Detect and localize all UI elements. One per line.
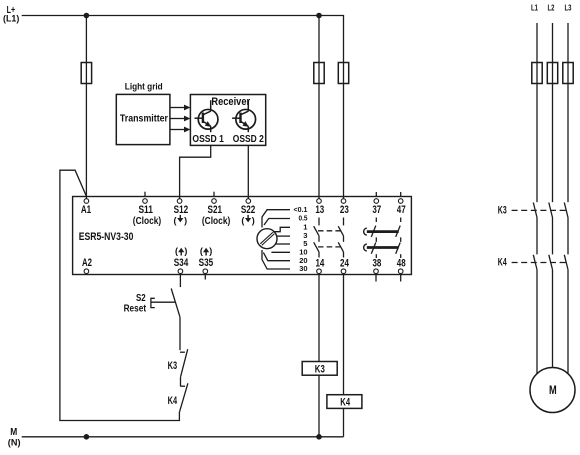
svg-text:M: M — [10, 427, 17, 438]
svg-text:(: ( — [175, 246, 178, 256]
svg-text:13: 13 — [315, 204, 324, 216]
svg-text:Reset: Reset — [124, 303, 147, 314]
svg-text:S11: S11 — [138, 204, 153, 216]
svg-text:Light grid: Light grid — [125, 81, 163, 92]
svg-text:(Clock): (Clock) — [133, 216, 161, 227]
svg-text:K4: K4 — [168, 395, 178, 407]
svg-text:(N): (N) — [8, 438, 21, 449]
svg-text:S21: S21 — [208, 204, 223, 216]
svg-text:S35: S35 — [199, 257, 214, 269]
svg-text:38: 38 — [372, 257, 381, 269]
svg-text:L2: L2 — [548, 2, 555, 12]
svg-text:K4: K4 — [498, 257, 507, 269]
svg-text:0.5: 0.5 — [299, 214, 309, 223]
svg-text:(L1): (L1) — [3, 14, 19, 25]
svg-text:K3: K3 — [315, 363, 325, 375]
svg-text:S22: S22 — [241, 204, 256, 216]
svg-text:OSSD 2: OSSD 2 — [233, 133, 264, 145]
svg-text:23: 23 — [340, 204, 349, 216]
svg-text:48: 48 — [397, 257, 406, 269]
svg-text:(: ( — [174, 216, 177, 226]
svg-text:): ) — [184, 216, 187, 226]
svg-text:47: 47 — [397, 204, 406, 216]
svg-text:): ) — [209, 246, 212, 256]
svg-text:ESR5-NV3-30: ESR5-NV3-30 — [79, 231, 134, 243]
svg-text:M: M — [549, 385, 557, 397]
svg-text:A2: A2 — [82, 257, 92, 269]
svg-text:(Clock): (Clock) — [202, 216, 230, 227]
svg-text:(: ( — [241, 216, 244, 226]
svg-text:L3: L3 — [565, 2, 572, 12]
svg-text:S12: S12 — [174, 204, 189, 216]
svg-text:K4: K4 — [340, 396, 350, 408]
svg-text:A1: A1 — [81, 204, 91, 216]
svg-text:37: 37 — [372, 204, 381, 216]
svg-text:1: 1 — [303, 222, 308, 231]
svg-text:): ) — [184, 246, 187, 256]
svg-text:S34: S34 — [174, 257, 189, 269]
svg-text:K3: K3 — [498, 204, 507, 216]
svg-text:OSSD 1: OSSD 1 — [192, 133, 224, 145]
svg-text:30: 30 — [299, 264, 307, 273]
svg-text:L1: L1 — [531, 2, 538, 12]
svg-text:(: ( — [200, 246, 203, 256]
svg-text:<0.1: <0.1 — [294, 205, 309, 214]
svg-text:Transmitter: Transmitter — [120, 112, 168, 124]
svg-text:24: 24 — [340, 257, 349, 269]
svg-text:14: 14 — [315, 257, 324, 269]
svg-text:): ) — [252, 216, 255, 226]
svg-text:K3: K3 — [168, 360, 178, 372]
svg-text:Receiver: Receiver — [211, 96, 250, 108]
